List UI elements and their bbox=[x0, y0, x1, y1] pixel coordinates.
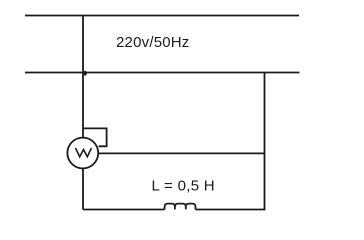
label: W inside wattmeter bbox=[76, 149, 91, 157]
wire: vertical below wattmeter bbox=[82, 169, 84, 210]
svg-text:L = 0,5 H: L = 0,5 H bbox=[152, 178, 215, 195]
wire: bottom rail right of inductor bbox=[196, 209, 266, 211]
inductor L (3 humps) bbox=[165, 204, 196, 210]
wattmeter U1 circle bbox=[67, 138, 98, 169]
wire: wattmeter output to right branch bbox=[99, 152, 265, 154]
wire: bottom rail left of inductor bbox=[83, 209, 165, 211]
wire: AC supply line 1 (top rail) bbox=[25, 15, 299, 17]
svg-text:220v/50Hz: 220v/50Hz bbox=[116, 34, 190, 51]
junction node on line 2 bbox=[84, 71, 87, 76]
wire: voltage-coil loop of wattmeter (rectangle) bbox=[83, 128, 107, 146]
wire: vertical drop from line 1 to wattmeter bbox=[82, 16, 84, 139]
wire: AC supply line 2 (second rail) bbox=[25, 72, 300, 74]
wire: right vertical branch from line 2 to bottom bbox=[264, 73, 266, 210]
